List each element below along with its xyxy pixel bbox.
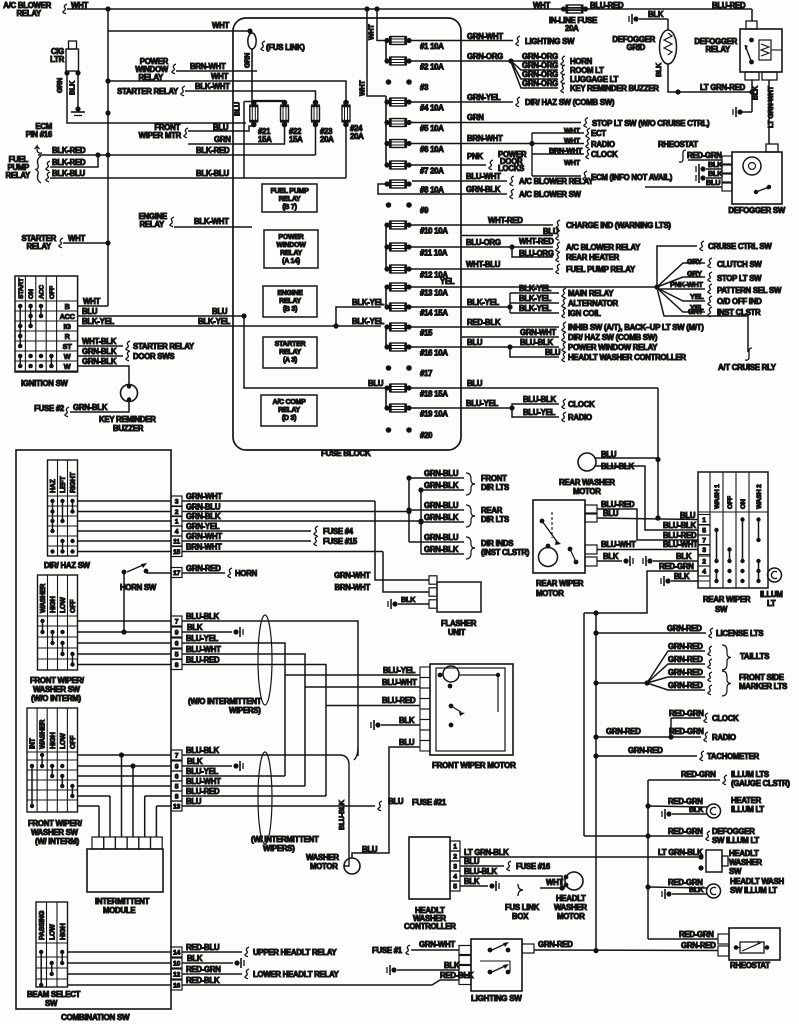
svg-text:GRN-ORG: GRN-ORG [522, 52, 558, 61]
svg-text:GRN-RED: GRN-RED [628, 746, 663, 755]
svg-text:BLU-RED: BLU-RED [590, 1, 624, 10]
svg-text:IGN COIL: IGN COIL [568, 309, 601, 318]
svg-text:GRN-RED: GRN-RED [668, 668, 703, 677]
svg-text:RED-GRN: RED-GRN [687, 151, 722, 160]
svg-text:12: 12 [173, 972, 181, 979]
svg-text:BLK-YEL: BLK-YEL [467, 298, 500, 307]
svg-text:DOOR SWS: DOOR SWS [133, 352, 174, 361]
svg-text:ENGINE: ENGINE [277, 290, 303, 297]
svg-text:ECT: ECT [591, 129, 606, 138]
svg-text:BLU-BLK: BLU-BLK [464, 867, 498, 876]
svg-text:GRN-RED: GRN-RED [668, 681, 703, 690]
svg-text:UNIT: UNIT [448, 628, 466, 637]
wire RED-GRN clock [593, 734, 598, 739]
svg-text:LUGGAGE LT: LUGGAGE LT [570, 75, 619, 84]
wire fuse15 RED-BLK inhibitor sw [409, 326, 559, 328]
svg-text:BLK-BLU: BLK-BLU [196, 169, 230, 178]
relay A/C COMP RELAY (D 3) [261, 395, 317, 426]
svg-text:HIGH: HIGH [50, 732, 57, 749]
svg-text:(W/ INTERMITTENT: (W/ INTERMITTENT [251, 835, 319, 844]
intermittent module [87, 849, 163, 892]
svg-text:WASHER: WASHER [40, 720, 47, 749]
svg-text:4: 4 [175, 529, 179, 536]
defogger switch [766, 144, 778, 152]
svg-text:GRN-BLU: GRN-BLU [424, 469, 459, 478]
junction node top bus [105, 6, 110, 11]
svg-text:BLK: BLK [187, 954, 203, 963]
svg-text:ON: ON [740, 499, 747, 509]
wire BLK flasher ground [392, 601, 397, 606]
rheostat [718, 934, 729, 944]
svg-text:BLK: BLK [603, 552, 619, 561]
wire BLU motor to washer [352, 747, 420, 858]
svg-text:DIR INDS: DIR INDS [481, 539, 513, 548]
svg-text:GRN-RED: GRN-RED [606, 727, 641, 736]
svg-text:BLK: BLK [464, 877, 480, 886]
svg-text:17: 17 [173, 570, 181, 577]
svg-text:REAR WIPER: REAR WIPER [703, 595, 751, 604]
svg-text:BLU-WHT: BLU-WHT [382, 678, 417, 687]
svg-text:RADIO: RADIO [568, 413, 592, 422]
node taillts fan [593, 680, 598, 685]
wire GRN-WHT to flasher [375, 501, 429, 580]
wire fuse2 GRN-ORG fan [409, 60, 521, 62]
svg-text:RADIO: RADIO [712, 733, 736, 742]
svg-text:1: 1 [453, 844, 457, 851]
fuse block outline [233, 18, 461, 450]
wire fuse8 GRN-BLK a/c blower sw [378, 184, 507, 194]
wire WHT to fusible link [108, 30, 249, 32]
wire BLK to defogger grid [639, 18, 668, 20]
svg-text:(A 3): (A 3) [283, 357, 297, 364]
wire BLK-BLU fuel pump relay [46, 172, 50, 182]
svg-text:5: 5 [453, 884, 457, 891]
svg-text:BRN-WHT: BRN-WHT [335, 583, 371, 592]
svg-text:MOTOR: MOTOR [310, 862, 338, 871]
main left bus WHT [107, 9, 109, 306]
svg-text:LT GRN-RED: LT GRN-RED [700, 83, 746, 92]
svg-text:GRN-ORG: GRN-ORG [522, 70, 558, 79]
fuse #22 15A [282, 100, 288, 106]
svg-text:3: 3 [702, 547, 706, 554]
wire BLK-YEL to fuses 15-16 [336, 325, 381, 327]
wire BLU-WHT rear wiper [597, 549, 698, 551]
svg-text:BLK-RED: BLK-RED [196, 146, 230, 155]
bus fuse 21-22 tops [254, 100, 285, 102]
wire BLU-BLK merge to washer motor [341, 755, 349, 866]
svg-text:BUZZER: BUZZER [113, 424, 144, 433]
svg-text:GRN-BLK: GRN-BLK [424, 513, 459, 522]
svg-text:BLU: BLU [82, 307, 98, 316]
svg-text:BRN-WHT: BRN-WHT [549, 146, 583, 155]
svg-text:WHT-BLU: WHT-BLU [466, 260, 501, 269]
front wiper motor [430, 664, 513, 755]
svg-text:ILLUM LT: ILLUM LT [731, 805, 764, 814]
svg-text:#1 10A: #1 10A [420, 42, 444, 51]
svg-text:A/T CRUISE RLY: A/T CRUISE RLY [718, 363, 777, 372]
svg-text:ROOM LT: ROOM LT [570, 66, 604, 75]
svg-text:20A: 20A [320, 135, 334, 144]
svg-text:#10 10A: #10 10A [420, 227, 448, 236]
wires beam select rows [68, 951, 172, 953]
svg-text:DIR/ HAZ SW: DIR/ HAZ SW [44, 561, 91, 570]
svg-text:8: 8 [175, 794, 179, 801]
svg-text:5: 5 [702, 528, 706, 535]
svg-text:5: 5 [175, 784, 179, 791]
svg-text:BRN-WHT: BRN-WHT [190, 62, 226, 71]
svg-text:WHT: WHT [564, 158, 581, 167]
svg-text:LEFT: LEFT [60, 476, 67, 493]
switch grid REAR WIPER SW [698, 472, 768, 588]
svg-text:FUSE #1: FUSE #1 [372, 946, 403, 955]
svg-text:16: 16 [173, 983, 181, 990]
svg-text:BLU: BLU [388, 797, 404, 806]
svg-text:BLK-YEL: BLK-YEL [519, 304, 552, 313]
svg-text:WIPERS): WIPERS) [263, 844, 295, 853]
svg-text:LT: LT [767, 599, 776, 608]
wire RED-GRN illumination bus vertical [583, 613, 585, 836]
svg-text:INHIB SW (A/T), BACK–UP LT SW: INHIB SW (A/T), BACK–UP LT SW (M/T) [568, 323, 704, 332]
wire GRN from cig lighter [67, 73, 246, 123]
svg-text:GRN-BLK: GRN-BLK [466, 185, 501, 194]
fuse #12 [384, 266, 389, 271]
svg-text:GRID: GRID [627, 43, 646, 52]
svg-text:GRN: GRN [244, 53, 252, 68]
svg-text:BLK-RED: BLK-RED [52, 158, 86, 167]
svg-text:BLU-ORG: BLU-ORG [519, 249, 554, 258]
svg-text:WASHER: WASHER [729, 858, 762, 867]
svg-text:(B 7): (B 7) [282, 204, 296, 211]
svg-text:POWER: POWER [278, 234, 303, 241]
svg-text:WASHER SW: WASHER SW [31, 828, 79, 837]
wire fuse18 BLU long to rear washer [409, 387, 658, 389]
wire fuse4 GRN-YEL [409, 101, 513, 103]
svg-text:BLU-BLK: BLU-BLK [186, 612, 220, 621]
svg-text:6: 6 [175, 774, 179, 781]
svg-text:FUSE #2: FUSE #2 [34, 404, 65, 413]
svg-text:SW: SW [729, 867, 742, 876]
wire fuse11 BLU-ORG [409, 246, 553, 248]
svg-text:CLUTCH SW: CLUTCH SW [717, 260, 762, 269]
wire GRN-WHT dir/haz sw [462, 336, 559, 338]
svg-text:#3: #3 [420, 83, 429, 92]
svg-text:13: 13 [173, 804, 181, 811]
svg-text:DEFOGGER SW: DEFOGGER SW [728, 206, 785, 215]
wires w/ interm rows [78, 754, 172, 756]
svg-text:BLU-WHT: BLU-WHT [186, 645, 221, 654]
fuse #21 15A [251, 100, 257, 106]
svg-text:PNK-WHT: PNK-WHT [670, 280, 703, 289]
svg-text:HORN SW: HORN SW [120, 583, 157, 592]
svg-text:B: B [65, 302, 70, 311]
svg-text:WHT: WHT [83, 297, 100, 306]
svg-text:BLK: BLK [69, 80, 77, 95]
svg-text:GRN-BLU: GRN-BLU [424, 501, 459, 510]
svg-text:GRN-BLK: GRN-BLK [73, 403, 108, 412]
svg-text:TAILLTS: TAILLTS [740, 652, 769, 661]
svg-text:BLU-BLK: BLU-BLK [520, 338, 554, 347]
svg-text:HIGH: HIGH [50, 596, 57, 613]
headlt washer sw [698, 854, 703, 859]
svg-text:WHT: WHT [564, 136, 581, 145]
svg-text:LTR: LTR [50, 55, 64, 64]
svg-text:WASH 2: WASH 2 [756, 484, 763, 509]
svg-text:15: 15 [173, 549, 181, 556]
svg-text:LOCKS: LOCKS [498, 164, 524, 173]
wire inner vertical [243, 102, 245, 179]
wire fuse5 GRN stop lt sw [409, 122, 581, 124]
wire WHT headlt washer motor [540, 887, 565, 889]
svg-text:STARTER RELAY: STARTER RELAY [133, 342, 195, 351]
fuse #8 [384, 181, 389, 186]
svg-text:#19 10A: #19 10A [420, 410, 448, 419]
wire fuse16 BLU power window relay [409, 346, 559, 348]
svg-text:CLOCK: CLOCK [568, 400, 595, 409]
wire BLK-RED ECM [35, 146, 43, 153]
svg-text:#15: #15 [420, 329, 433, 338]
flasher unit [429, 576, 437, 584]
svg-text:GRN: GRN [56, 78, 64, 93]
svg-text:WHT: WHT [533, 1, 550, 10]
svg-text:GRN-BLK: GRN-BLK [186, 512, 221, 521]
svg-text:9: 9 [175, 630, 179, 637]
svg-text:BLU: BLU [467, 338, 483, 347]
wire BLK rear wiper sw ground [665, 578, 670, 583]
svg-text:REAR HEATER: REAR HEATER [566, 253, 620, 262]
svg-text:ALTERNATOR: ALTERNATOR [568, 299, 619, 308]
svg-text:BLU-RED: BLU-RED [382, 696, 416, 705]
svg-text:GRN-BLK: GRN-BLK [424, 481, 459, 490]
rear wiper motor [533, 500, 585, 573]
wire WHT top feed [63, 4, 67, 14]
fusible link FUS LINK [248, 33, 256, 49]
fuse #9 spare dots [386, 202, 392, 208]
svg-text:BLK: BLK [689, 805, 704, 814]
svg-text:BLU-YEL: BLU-YEL [523, 408, 556, 417]
svg-text:FUEL PUMP RELAY: FUEL PUMP RELAY [566, 265, 636, 274]
svg-text:BLU-YEL: BLU-YEL [186, 767, 219, 776]
fuse #4 [384, 99, 389, 104]
svg-text:(A 14): (A 14) [282, 258, 300, 265]
connector pins combination sw [171, 496, 182, 506]
svg-text:FUEL PUMP: FUEL PUMP [270, 188, 309, 195]
svg-text:LOW: LOW [60, 733, 67, 749]
svg-text:MOTOR: MOTOR [557, 912, 585, 921]
svg-text:FUSE #21: FUSE #21 [412, 798, 447, 807]
svg-text:BLK: BLK [399, 716, 415, 725]
fuse #18 [384, 385, 389, 390]
wire BLU down to fuse 18 [244, 316, 386, 388]
svg-text:RELAY: RELAY [140, 220, 166, 229]
fuse #13 [384, 284, 389, 289]
svg-text:BLU-WHT: BLU-WHT [663, 540, 698, 549]
svg-text:YEL: YEL [690, 292, 704, 301]
wire BLU-RED motor [326, 705, 420, 707]
svg-text:ECM (INFO NOT AVAIL): ECM (INFO NOT AVAIL) [591, 173, 673, 182]
svg-text:7: 7 [175, 619, 179, 626]
svg-text:RED-GRN: RED-GRN [659, 562, 694, 571]
wire BLU-RED to defogger relay [751, 9, 753, 21]
svg-text:CRUISE CTRL SW: CRUISE CTRL SW [708, 242, 772, 251]
wire fuse7 PNK power door locks [409, 164, 486, 166]
switch grid FRONT WIPER/WASHER SW (W/ INTERM) [27, 708, 78, 812]
svg-text:2: 2 [702, 559, 706, 566]
wire horn sw to blk [123, 574, 125, 632]
switch grid FRONT WIPER/WASHER SW (W/O INTERM) [38, 575, 78, 670]
svg-text:BLU-ORG: BLU-ORG [466, 238, 501, 247]
wire BRN-WHT to flasher [383, 552, 429, 593]
svg-text:DIR/ HAZ SW (COMB SW): DIR/ HAZ SW (COMB SW) [525, 98, 615, 107]
svg-text:KEY REMINDER BUZZER: KEY REMINDER BUZZER [570, 84, 659, 93]
svg-text:A/C BLOWER RELAY: A/C BLOWER RELAY [519, 177, 594, 186]
wire RED-GRN radio [671, 736, 701, 738]
svg-text:OFF: OFF [70, 599, 77, 613]
svg-text:MAIN RELAY: MAIN RELAY [568, 289, 614, 298]
wire RED-GRN defogger sw illum lt [648, 835, 703, 837]
svg-text:FUSE #16: FUSE #16 [516, 862, 551, 871]
svg-text:KEY REMINDER: KEY REMINDER [99, 415, 156, 424]
svg-text:3: 3 [175, 499, 179, 506]
svg-text:FRONT WIPER/: FRONT WIPER/ [30, 676, 85, 685]
svg-text:#16 10A: #16 10A [420, 349, 448, 358]
svg-text:CLOCK: CLOCK [712, 714, 739, 723]
svg-text:RHEOSTAT: RHEOSTAT [730, 961, 770, 970]
cable loop w/ interm [258, 752, 272, 844]
fuse #10 [384, 222, 389, 227]
wire GRN-RED license lts [593, 630, 598, 635]
svg-text:(B 3): (B 3) [283, 306, 297, 313]
svg-text:RELAY: RELAY [6, 171, 32, 180]
relay FUEL PUMP RELAY (B 7) [262, 184, 317, 212]
svg-text:BLK-YEL: BLK-YEL [198, 317, 231, 326]
svg-text:BLU-RED: BLU-RED [186, 656, 220, 665]
svg-text:WHT: WHT [211, 72, 228, 81]
wire fuse10 WHT-RED charge ind [409, 224, 553, 226]
svg-text:INT: INT [30, 738, 37, 750]
wire BLK lighting sw ground [391, 967, 396, 972]
bus fuses 15-16 [385, 327, 387, 347]
svg-text:20A: 20A [565, 24, 579, 33]
vertical GRN-BLU bus [408, 478, 410, 542]
svg-text:WASH 1: WASH 1 [714, 484, 721, 509]
svg-text:#18 15A: #18 15A [420, 390, 448, 399]
svg-text:CONTROLLER: CONTROLLER [404, 922, 456, 931]
switch grid DIR/ HAZ SW [48, 460, 78, 556]
svg-text:FUSE BLOCK: FUSE BLOCK [321, 449, 371, 458]
svg-text:FLASHER: FLASHER [441, 619, 477, 628]
svg-text:GRN: GRN [467, 113, 484, 122]
heater illum lt [648, 806, 707, 807]
svg-text:BLU-YEL: BLU-YEL [186, 634, 219, 643]
fuse #20 spare dots [386, 427, 392, 433]
wire BLK-YEL to fuses 13-14 [336, 307, 381, 326]
svg-text:GRN-YEL: GRN-YEL [186, 522, 220, 531]
svg-text:#17: #17 [420, 369, 432, 378]
svg-text:BLK: BLK [648, 10, 664, 19]
svg-text:DIR LTS: DIR LTS [481, 515, 509, 524]
svg-text:#4 10A: #4 10A [420, 104, 444, 113]
svg-text:(W/ INTERM): (W/ INTERM) [35, 837, 80, 846]
svg-text:RELAY: RELAY [279, 298, 301, 305]
svg-text:GRN-RED: GRN-RED [538, 940, 573, 949]
svg-text:OFF: OFF [727, 496, 734, 509]
wires dir/haz rows [78, 500, 172, 502]
svg-text:(INST CLSTR): (INST CLSTR) [481, 548, 530, 557]
svg-text:BLK-WHT: BLK-WHT [195, 82, 230, 91]
svg-text:RELAY: RELAY [279, 196, 301, 203]
switch grid BEAM SELECT SW [36, 902, 68, 987]
relay POWER WINDOW RELAY (A 14) [264, 230, 318, 268]
ground cig lighter [75, 106, 80, 111]
svg-text:BLU: BLU [545, 348, 561, 357]
wire GRN-RED tachometer [593, 753, 598, 758]
svg-text:RED-BLK: RED-BLK [467, 318, 501, 327]
svg-text:ILLUM: ILLUM [760, 590, 783, 599]
svg-text:PNK: PNK [467, 152, 483, 161]
svg-text:BRN-WHT: BRN-WHT [186, 543, 222, 552]
svg-text:HEADLT WASH: HEADLT WASH [730, 877, 784, 886]
svg-text:BLK: BLK [444, 961, 460, 970]
fuse #5 [384, 120, 389, 125]
svg-text:CHARGE IND (WARNING LTS): CHARGE IND (WARNING LTS) [566, 221, 671, 230]
svg-text:BLK: BLK [752, 85, 760, 100]
fuse #1 [384, 38, 389, 43]
svg-text:BLU-RED: BLU-RED [712, 1, 746, 10]
svg-text:W: W [64, 352, 71, 361]
svg-text:15A: 15A [258, 135, 272, 144]
svg-text:BRN-WHT: BRN-WHT [467, 134, 503, 143]
svg-text:5: 5 [175, 652, 179, 659]
svg-text:BLK-WHT: BLK-WHT [194, 217, 229, 226]
svg-text:1: 1 [702, 517, 706, 524]
svg-text:GRN-ORG: GRN-ORG [522, 79, 558, 88]
svg-text:LOW: LOW [49, 924, 56, 940]
svg-text:GRN-ORG: GRN-ORG [467, 52, 503, 61]
svg-text:HORN: HORN [570, 57, 593, 66]
svg-text:9: 9 [175, 764, 179, 771]
svg-text:STARTER: STARTER [275, 341, 306, 348]
svg-text:BLK: BLK [655, 62, 663, 77]
wire fuse14 BLK-YEL main relay branch [409, 306, 510, 308]
svg-text:ST: ST [63, 342, 73, 351]
svg-text:TACHOMETER: TACHOMETER [707, 752, 760, 761]
svg-text:GRN-BLU: GRN-BLU [424, 533, 459, 542]
illumination feed vertical [647, 780, 649, 939]
svg-text:WHT-RED: WHT-RED [519, 237, 554, 246]
ground BLK defogger sw 1 [700, 166, 705, 171]
svg-text:HAZ: HAZ [50, 478, 57, 493]
svg-text:LICENSE LTS: LICENSE LTS [716, 629, 763, 638]
svg-text:BLU: BLU [467, 379, 483, 388]
fuse #17 spare dots [386, 365, 392, 371]
wire fuse13 YEL long [409, 286, 657, 288]
svg-text:BLU: BLU [212, 307, 228, 316]
svg-text:BLK-YEL: BLK-YEL [352, 298, 385, 307]
svg-text:#5 10A: #5 10A [420, 124, 444, 133]
svg-text:GRN-RED: GRN-RED [186, 564, 221, 573]
svg-text:PATTERN SEL SW: PATTERN SEL SW [717, 286, 782, 295]
svg-text:#6 10A: #6 10A [420, 145, 444, 154]
fuse #14 [384, 304, 389, 309]
wire BLK cig lighter to ground [77, 73, 79, 108]
svg-text:(W/O INTERMITTENT: (W/O INTERMITTENT [188, 697, 262, 706]
svg-text:ON: ON [28, 289, 35, 299]
svg-text:HEATER: HEATER [731, 796, 762, 805]
wire GRN-RED lamp bus vertical [593, 610, 598, 615]
svg-text:20A: 20A [350, 132, 364, 141]
svg-text:BLU: BLU [603, 509, 619, 518]
vertical GRN-BLK bus [420, 490, 422, 554]
